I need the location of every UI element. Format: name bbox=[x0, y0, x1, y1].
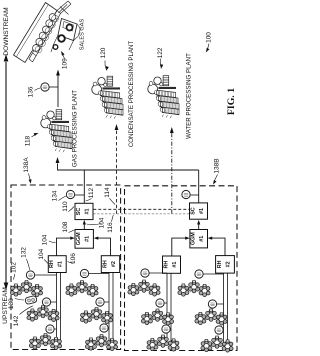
svg-text:#1: #1 bbox=[199, 236, 205, 242]
svg-text:104: 104 bbox=[99, 217, 106, 228]
svg-text:104: 104 bbox=[38, 248, 45, 259]
svg-text:GAS PROCESSING PLANT: GAS PROCESSING PLANT bbox=[72, 90, 79, 167]
svg-text:SC: SC bbox=[190, 207, 196, 215]
svg-text:#1: #1 bbox=[58, 261, 64, 267]
svg-text:RH: RH bbox=[49, 260, 55, 268]
svg-text:136: 136 bbox=[28, 86, 35, 97]
svg-text:SALES GAS: SALES GAS bbox=[79, 19, 85, 51]
svg-text:SC: SC bbox=[76, 208, 82, 216]
svg-text:122: 122 bbox=[157, 47, 164, 58]
svg-text:#1: #1 bbox=[84, 208, 90, 214]
svg-text:116: 116 bbox=[107, 222, 114, 233]
svg-text:112: 112 bbox=[88, 187, 95, 198]
svg-text:RH: RH bbox=[102, 260, 108, 268]
svg-text:138B: 138B bbox=[214, 158, 221, 173]
svg-text:132: 132 bbox=[21, 247, 28, 258]
svg-text:#1: #1 bbox=[199, 208, 205, 214]
svg-text:109: 109 bbox=[61, 58, 68, 69]
svg-text:#1: #1 bbox=[85, 236, 91, 242]
svg-text:FIG. 1: FIG. 1 bbox=[226, 88, 237, 115]
svg-text:120: 120 bbox=[100, 47, 107, 58]
svg-text:RH: RH bbox=[217, 260, 223, 268]
svg-text:102: 102 bbox=[11, 262, 18, 273]
svg-text:100: 100 bbox=[206, 32, 213, 43]
svg-text:142: 142 bbox=[13, 315, 20, 326]
svg-text:138A: 138A bbox=[23, 157, 30, 173]
svg-text:110: 110 bbox=[62, 201, 69, 212]
svg-text:DOWNSTREAM: DOWNSTREAM bbox=[3, 7, 10, 55]
svg-text:GGM: GGM bbox=[191, 232, 197, 245]
svg-text:RH: RH bbox=[163, 261, 169, 269]
svg-text:104: 104 bbox=[42, 234, 49, 245]
svg-text:118: 118 bbox=[25, 135, 32, 146]
svg-text:WATER PROCESSING PLANT: WATER PROCESSING PLANT bbox=[186, 53, 193, 139]
svg-text:130: 130 bbox=[8, 298, 15, 309]
svg-text:134: 134 bbox=[51, 190, 58, 201]
svg-text:#2: #2 bbox=[225, 261, 231, 267]
svg-text:#1: #1 bbox=[172, 262, 178, 268]
svg-text:GGM: GGM bbox=[76, 232, 82, 245]
svg-text:CONDENSATE PROCESSING PLANT: CONDENSATE PROCESSING PLANT bbox=[128, 41, 135, 148]
svg-text:106: 106 bbox=[70, 253, 77, 264]
svg-text:114: 114 bbox=[104, 187, 111, 198]
svg-text:#2: #2 bbox=[111, 261, 117, 267]
svg-text:108: 108 bbox=[62, 221, 69, 232]
